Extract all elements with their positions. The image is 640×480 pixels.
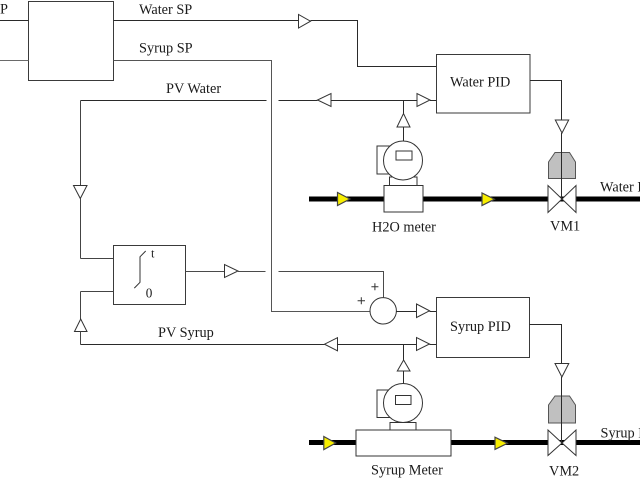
wire vertical to PV Syrup bbox=[80, 292, 82, 320]
Syrup meter body bbox=[356, 430, 451, 456]
wire into Syrup PID pv bbox=[430, 344, 437, 346]
wire PV Syrup mid bbox=[338, 344, 417, 346]
wire PV Water left of crossing bbox=[81, 100, 267, 102]
svg-text:P: P bbox=[0, 2, 8, 18]
Syrup meter neck bbox=[390, 423, 416, 431]
wire Water SP bbox=[114, 20, 299, 22]
arrow up into integrator input 2 bbox=[75, 319, 88, 332]
H2O meter neck bbox=[390, 177, 418, 186]
svg-text:VM1: VM1 bbox=[550, 219, 580, 235]
svg-text:t: t bbox=[151, 247, 155, 261]
wire integrator input 1 bbox=[81, 258, 114, 260]
wire left vertical from PV Water bbox=[80, 101, 82, 186]
integrator box bbox=[114, 246, 186, 305]
wire PV Water tee down to meter bbox=[403, 101, 405, 114]
yellow flow arrow syrup 2 bbox=[495, 437, 508, 449]
H2O meter head bbox=[384, 141, 423, 180]
svg-text:Water PID: Water PID bbox=[450, 75, 510, 91]
ratio station box bbox=[29, 2, 114, 81]
wire into Syrup PID sp bbox=[430, 311, 437, 313]
svg-text:Syrup PID: Syrup PID bbox=[450, 319, 511, 335]
wire Water PID output bbox=[530, 81, 562, 121]
arrow up H2O meter bbox=[397, 114, 410, 128]
Syrup meter display bbox=[396, 396, 412, 405]
syrup pipe bbox=[309, 440, 640, 445]
arrow right into Syrup PID pv bbox=[417, 338, 430, 351]
H2O meter display bbox=[396, 151, 412, 160]
H2O meter body bbox=[384, 186, 423, 213]
VM1 actuator bbox=[549, 153, 576, 179]
VM1 valve body bbox=[548, 186, 562, 213]
plus sign top bbox=[371, 283, 378, 290]
yellow flow arrow water 2 bbox=[482, 193, 495, 206]
arrow left PV Syrup bbox=[325, 338, 338, 351]
svg-text:VM2: VM2 bbox=[549, 463, 579, 479]
wire PV Syrup left bbox=[81, 344, 325, 346]
svg-text:Syrup Meter: Syrup Meter bbox=[371, 463, 443, 479]
svg-text:0: 0 bbox=[146, 286, 153, 301]
arrow up Syrup meter bbox=[397, 360, 410, 371]
wire integrator output bbox=[186, 271, 225, 273]
arrow right integrator output bbox=[225, 265, 239, 278]
H2O meter terminal box bbox=[377, 146, 395, 174]
wire PV Water right of crossing bbox=[279, 100, 318, 102]
wire below arrow bbox=[80, 332, 82, 345]
wire Water SP to Water PID bbox=[311, 21, 437, 67]
wire PV Syrup tee down to meter bbox=[403, 345, 405, 361]
wire integrator output to crossing bbox=[238, 271, 266, 273]
wire PV Water mid bbox=[331, 100, 417, 102]
Syrup PID box bbox=[437, 298, 530, 358]
wire Syrup PID output bbox=[530, 325, 562, 364]
wire left vertical lower bbox=[80, 199, 82, 259]
VM2 stem bbox=[561, 377, 563, 443]
arrow left PV Water bbox=[318, 94, 332, 107]
yellow flow arrow syrup 1 bbox=[324, 437, 336, 450]
svg-text:Water SP: Water SP bbox=[139, 2, 192, 18]
arrow down to VM2 bbox=[555, 364, 569, 378]
wire sum to Syrup PID bbox=[396, 311, 416, 313]
VM1 stem bbox=[561, 133, 563, 199]
arrow right sum output bbox=[417, 304, 430, 318]
wire input 2 bbox=[0, 60, 29, 62]
wire arrow to meter circle bbox=[403, 127, 405, 141]
svg-text:PV Water: PV Water bbox=[166, 81, 221, 97]
water pipe bbox=[309, 197, 640, 202]
Syrup meter terminal box bbox=[377, 390, 395, 418]
Syrup meter head bbox=[384, 384, 423, 423]
wire input 1 bbox=[0, 20, 29, 22]
arrow right Water SP bbox=[299, 15, 311, 29]
Water PID box bbox=[437, 55, 531, 114]
wire Syrup SP bbox=[114, 61, 370, 312]
wire into Water PID bbox=[430, 100, 437, 102]
arrow right into Water PID bbox=[417, 94, 430, 107]
wire arrow to syrup meter circle bbox=[403, 371, 405, 384]
wire integrator output after crossing bbox=[279, 272, 384, 298]
svg-text:PV Syrup: PV Syrup bbox=[158, 325, 214, 341]
svg-text:Syrup Flow: Syrup Flow bbox=[601, 426, 640, 442]
arrow down to VM1 bbox=[555, 120, 568, 133]
arrow down left vertical bbox=[74, 186, 88, 199]
VM2 actuator bbox=[549, 396, 576, 423]
summing junction bbox=[370, 298, 396, 324]
plus sign left bbox=[358, 297, 365, 304]
yellow flow arrow water 1 bbox=[338, 193, 351, 206]
wire integrator input 2 bbox=[81, 291, 114, 293]
VM2 valve body bbox=[548, 430, 562, 456]
svg-text:Water Flow: Water Flow bbox=[600, 180, 640, 196]
integral sign bbox=[134, 251, 145, 288]
svg-text:H2O meter: H2O meter bbox=[372, 220, 436, 236]
svg-text:Syrup SP: Syrup SP bbox=[139, 41, 193, 57]
